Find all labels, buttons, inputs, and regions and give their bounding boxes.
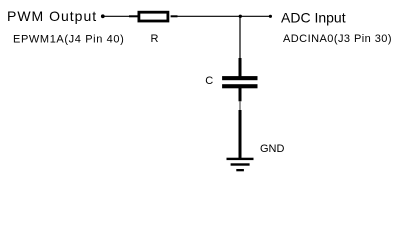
capacitor C1 top lead [239, 58, 242, 77]
svg-text:R: R [151, 33, 159, 45]
svg-text:C: C [205, 75, 213, 87]
label ADC Input [281, 10, 346, 26]
resistor R1 right lead [171, 15, 178, 17]
wire capacitor to ground [239, 101, 241, 111]
svg-text:GND: GND [260, 143, 285, 155]
ground bar 3 [236, 169, 244, 171]
label GND [260, 143, 285, 155]
capacitor C1 bottom plate [222, 84, 257, 88]
label EPWM1A(J4 Pin 40) [13, 33, 124, 45]
label PWM Output [7, 8, 97, 24]
node PWM Output terminal [101, 14, 105, 18]
capacitor C1 top plate [222, 76, 257, 80]
node ADC Input terminal [269, 15, 272, 18]
svg-text:ADC Input: ADC Input [281, 10, 346, 26]
svg-text:PWM Output: PWM Output [7, 8, 97, 24]
svg-text:EPWM1A(J4 Pin 40): EPWM1A(J4 Pin 40) [13, 33, 124, 45]
label R [151, 33, 159, 45]
ground bar 1 [227, 158, 254, 160]
resistor R1 left lead [129, 15, 138, 17]
wire node to resistor [104, 15, 131, 17]
label ADCINA0(J3 Pin 30) [283, 33, 392, 45]
ground bar 2 [231, 163, 250, 165]
wire junction to ADC terminal [240, 15, 269, 17]
label C [205, 75, 213, 87]
wire junction down to capacitor [239, 16, 241, 59]
svg-text:ADCINA0(J3 Pin 30): ADCINA0(J3 Pin 30) [283, 33, 392, 45]
wire resistor to junction [177, 15, 240, 17]
resistor R1 [139, 12, 168, 21]
junction node [239, 15, 242, 18]
capacitor C1 bottom lead [239, 88, 242, 101]
ground lead [239, 110, 242, 158]
